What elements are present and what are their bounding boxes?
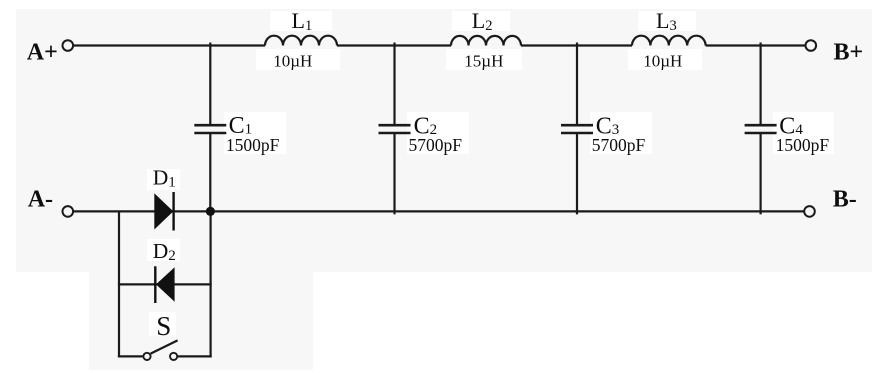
terminal B+ xyxy=(806,40,817,51)
wire top rail right segment xyxy=(706,44,806,46)
svg-text:B-: B- xyxy=(833,187,857,213)
wire C2 branch lower xyxy=(393,134,395,214)
diode D1 xyxy=(154,192,173,231)
capacitor C3 xyxy=(561,125,593,133)
switch S contact left xyxy=(143,353,150,360)
svg-text:5700pF: 5700pF xyxy=(409,135,463,155)
capacitor C4 xyxy=(745,125,777,133)
wire top rail left segment xyxy=(73,44,265,46)
switch S lever xyxy=(151,340,178,353)
wire switch row left segment xyxy=(118,355,143,357)
inductor L1 xyxy=(265,36,337,46)
wire D2 branch horizontal xyxy=(118,283,212,285)
inductor L2 xyxy=(451,36,521,46)
svg-text:10µH: 10µH xyxy=(643,51,682,70)
svg-text:5700pF: 5700pF xyxy=(592,135,646,155)
svg-text:1500pF: 1500pF xyxy=(226,135,280,155)
wire right drop of D2/S loop xyxy=(210,211,212,357)
terminal A- xyxy=(63,206,74,217)
svg-text:S: S xyxy=(156,311,171,341)
wire C1 branch upper xyxy=(209,43,211,125)
wire C1 branch lower xyxy=(209,134,211,211)
node junction dot xyxy=(206,207,215,216)
terminal B- xyxy=(804,206,815,217)
diode D2 xyxy=(155,266,174,303)
wire left drop of D2/S loop xyxy=(118,211,120,358)
wire C3 branch upper xyxy=(576,43,578,125)
svg-text:10µH: 10µH xyxy=(273,51,312,70)
terminal A+ xyxy=(63,40,74,51)
wire C3 branch lower xyxy=(576,134,578,214)
wire switch row right segment xyxy=(177,355,212,357)
svg-text:15µH: 15µH xyxy=(464,51,503,70)
wire top rail between L2 and L3 xyxy=(521,44,632,46)
switch S contact right xyxy=(170,353,177,360)
wire C2 branch upper xyxy=(393,43,395,125)
wire bottom rail xyxy=(74,210,805,212)
svg-text:1500pF: 1500pF xyxy=(776,135,830,155)
capacitor C1 xyxy=(194,125,226,133)
capacitor C2 xyxy=(379,125,411,133)
svg-text:A+: A+ xyxy=(27,39,58,65)
svg-text:B+: B+ xyxy=(834,40,864,66)
wire C4 branch lower xyxy=(759,134,761,214)
wire C4 branch upper xyxy=(759,43,761,125)
svg-text:A-: A- xyxy=(28,186,53,212)
wire top rail between L1 and L2 xyxy=(337,44,451,46)
inductor L3 xyxy=(632,36,706,46)
